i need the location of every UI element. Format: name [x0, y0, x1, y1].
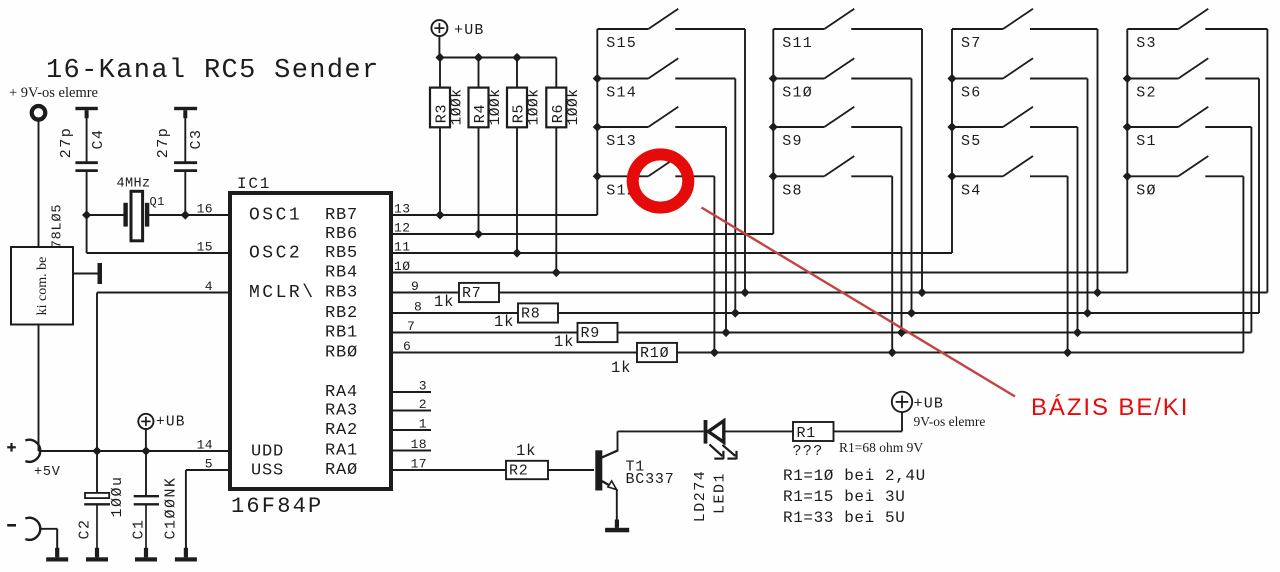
- wire RA stub: [391, 391, 431, 393]
- svg-text:S14: S14: [606, 85, 637, 102]
- wire column 4 rail: [1126, 29, 1128, 273]
- svg-text:R1=15 bei 3U: R1=15 bei 3U: [783, 488, 905, 506]
- wire R7 to matrix row: [499, 292, 1267, 294]
- svg-text:C4: C4: [90, 128, 107, 149]
- wire RB7 row (pin13): [391, 214, 597, 216]
- node S9 to row: [897, 328, 906, 337]
- resistor R5 100k: [516, 58, 518, 88]
- svg-text:S1Ø: S1Ø: [782, 85, 813, 102]
- wire RA stub: [391, 410, 431, 412]
- svg-text:S4: S4: [961, 182, 981, 199]
- svg-text:16-Kanal RC5 Sender: 16-Kanal RC5 Sender: [46, 56, 380, 86]
- svg-text:+5V: +5V: [34, 465, 61, 480]
- wire column 1 rail: [596, 29, 598, 215]
- node R3 to pin row: [435, 210, 444, 219]
- svg-text:RB6: RB6: [325, 225, 358, 244]
- node R6 to pin row: [552, 268, 561, 277]
- power symbol +UB (left): [138, 414, 153, 429]
- wire emitter to ground: [616, 489, 618, 528]
- svg-text:RB4: RB4: [325, 264, 358, 283]
- node S6 to row: [1083, 308, 1092, 317]
- svg-text:R3: R3: [434, 104, 451, 124]
- node S11 to row: [917, 288, 926, 297]
- switch S9: [773, 126, 824, 128]
- wire S11 drop: [921, 29, 923, 293]
- node S7 to row: [1093, 288, 1102, 297]
- stub from regulator with T-bar: [73, 273, 98, 275]
- wire LED to R1: [724, 430, 793, 432]
- svg-text:S1: S1: [1136, 133, 1156, 150]
- battery terminal ring: [32, 106, 46, 120]
- svg-text:S9: S9: [782, 133, 802, 150]
- svg-text:R8: R8: [521, 306, 541, 323]
- svg-text:5: 5: [205, 457, 213, 472]
- svg-text:C2: C2: [77, 518, 94, 539]
- svg-text:RAØ: RAØ: [325, 461, 358, 480]
- resistor R1Ø 1k: [637, 343, 677, 362]
- svg-text:S5: S5: [961, 133, 981, 150]
- wire S4 drop: [1067, 176, 1069, 352]
- svg-text:16: 16: [197, 202, 213, 217]
- wire pin row to R7: [391, 292, 459, 294]
- wire pin row to R1Ø: [391, 352, 637, 354]
- wire S9 drop: [901, 127, 903, 333]
- svg-text:S11: S11: [782, 35, 813, 52]
- node R5 to pin row: [512, 248, 521, 257]
- node S1Ø to row: [907, 308, 916, 317]
- svg-text:1k: 1k: [516, 442, 536, 460]
- switch S4: [952, 175, 1003, 177]
- svg-text:S8: S8: [782, 182, 802, 199]
- minus terminal arc: [25, 518, 40, 540]
- node S8 to row: [888, 348, 897, 357]
- ground (minus): [56, 529, 58, 558]
- capacitor C3 ground: [174, 107, 197, 110]
- switch S7: [952, 28, 1003, 30]
- svg-text:4: 4: [205, 279, 213, 294]
- switch S1Ø: [773, 78, 824, 80]
- node rail junction S14: [593, 74, 602, 83]
- svg-text:4MHz: 4MHz: [117, 177, 151, 192]
- svg-text:1k: 1k: [434, 293, 454, 311]
- svg-text:LED1: LED1: [712, 472, 729, 514]
- svg-text:15: 15: [197, 240, 213, 255]
- resistor R7 1k: [459, 283, 499, 302]
- capacitor C4 ground: [75, 107, 97, 110]
- node rail junction S9: [769, 122, 778, 131]
- svg-text:S6: S6: [961, 85, 981, 102]
- wire pin row to R9: [391, 332, 578, 334]
- node rail junction S6: [947, 74, 956, 83]
- node S4 to row: [1063, 348, 1072, 357]
- svg-text:S13: S13: [606, 133, 637, 150]
- svg-text:R1Ø: R1Ø: [640, 345, 669, 362]
- switch S3: [1127, 28, 1178, 30]
- node top rail junction 2: [474, 53, 483, 62]
- wire S6 drop: [1087, 79, 1089, 314]
- svg-text:ki com. be: ki com. be: [35, 257, 50, 316]
- svg-text:S3: S3: [1136, 35, 1156, 52]
- resistor R9 1k: [578, 323, 618, 342]
- wire to OSC2: [86, 215, 88, 253]
- svg-text:RA2: RA2: [325, 421, 358, 440]
- node S12 to row: [710, 348, 719, 357]
- capacitor C1: [145, 451, 147, 495]
- svg-text:1k: 1k: [611, 359, 631, 377]
- switch S12: [597, 175, 648, 177]
- node rail junction S5: [947, 122, 956, 131]
- wire R1 to +UB: [834, 430, 903, 432]
- switch S6: [952, 78, 1003, 80]
- +5V row wire to VDD pin 14: [39, 450, 231, 452]
- wire pin row to R8: [391, 312, 518, 314]
- svg-text:27p: 27p: [155, 127, 172, 159]
- svg-text:R1=1Ø bei 2,4U: R1=1Ø bei 2,4U: [783, 467, 926, 485]
- wire +UB stub: [438, 36, 440, 57]
- svg-text:R1=68 ohm 9V: R1=68 ohm 9V: [839, 440, 923, 455]
- wire minus to ground: [40, 528, 57, 530]
- svg-text:R5: R5: [511, 104, 528, 124]
- wire collector to LED: [618, 430, 704, 432]
- wire MCLR: [97, 292, 230, 294]
- svg-text:+UB: +UB: [914, 396, 945, 413]
- svg-text:9V-os elemre: 9V-os elemre: [914, 414, 986, 429]
- wire R9 to matrix row: [618, 332, 1252, 334]
- wire S7 drop: [1097, 29, 1099, 293]
- svg-text:RA4: RA4: [325, 383, 358, 402]
- svg-text:16F84P: 16F84P: [231, 494, 323, 519]
- svg-text:OSC2: OSC2: [249, 244, 302, 264]
- svg-text:R1=33 bei 5U: R1=33 bei 5U: [783, 509, 905, 527]
- svg-text:R4: R4: [472, 104, 489, 124]
- svg-text:S7: S7: [961, 35, 981, 52]
- power symbol +UB (top): [431, 20, 447, 36]
- svg-text:RB7: RB7: [325, 206, 358, 225]
- svg-text:C1: C1: [131, 518, 148, 539]
- svg-text:UDD: UDD: [251, 443, 284, 462]
- svg-text:1ØØk: 1ØØk: [566, 89, 582, 126]
- node +5V/C1 junction: [141, 446, 150, 455]
- wire RA stub: [391, 429, 431, 431]
- wire column 2 rail: [772, 29, 774, 234]
- wire R1Ø to matrix row: [677, 352, 1243, 354]
- wire S1Ø drop: [911, 79, 913, 314]
- svg-text:RA1: RA1: [325, 442, 358, 461]
- svg-text:14: 14: [197, 438, 213, 453]
- wire RB5 row (pin11): [391, 252, 952, 254]
- ground (VSS wire): [185, 520, 187, 557]
- svg-text:C1ØØNK: C1ØØNK: [163, 476, 180, 539]
- svg-text:1k: 1k: [494, 313, 514, 331]
- resistor R4 100k: [478, 58, 480, 88]
- svg-text:IC1: IC1: [237, 175, 271, 193]
- svg-text:S15: S15: [606, 35, 637, 52]
- switch S1: [1127, 126, 1178, 128]
- node rail junction SØ: [1123, 172, 1132, 181]
- svg-text:+UB: +UB: [156, 415, 186, 431]
- svg-text:RB3: RB3: [325, 284, 358, 303]
- wire RB6 row (pin12): [391, 233, 773, 235]
- svg-text:78LØ5: 78LØ5: [51, 204, 66, 249]
- node OSC1 left junction: [82, 210, 91, 219]
- LED arrows: [709, 444, 736, 459]
- power symbol +UB (right): [892, 392, 912, 412]
- svg-text:+ 9V-os elemre: + 9V-os elemre: [9, 85, 98, 101]
- red circle annotation around S12 switch: [625, 146, 696, 214]
- wire SØ drop: [1242, 176, 1244, 352]
- switch S14: [597, 78, 648, 80]
- wire S2 drop: [1258, 79, 1260, 314]
- svg-text:RB1: RB1: [325, 324, 358, 343]
- minus sign: [7, 524, 16, 527]
- svg-text:C3: C3: [188, 128, 205, 149]
- node rail junction S8: [769, 172, 778, 181]
- wire S1 drop: [1250, 127, 1252, 333]
- wire S12 drop: [713, 176, 715, 352]
- resistor R8 1k: [518, 303, 558, 322]
- node S14 to row: [731, 308, 740, 317]
- svg-text:Q1: Q1: [150, 195, 165, 209]
- svg-text:???: ???: [793, 443, 824, 460]
- resistor R1: [793, 422, 834, 441]
- node OSC1 right junction: [181, 210, 190, 219]
- wire VSS to ground: [186, 469, 230, 471]
- svg-text:R2: R2: [509, 463, 529, 480]
- svg-text:27p: 27p: [58, 127, 75, 159]
- wire crystal to OSC1: [185, 214, 230, 216]
- wire column 3 rail: [951, 29, 953, 253]
- node S15 to row: [740, 288, 749, 297]
- svg-text:RBØ: RBØ: [325, 344, 358, 363]
- node S5 to row: [1073, 328, 1082, 337]
- node R4 to pin row: [474, 229, 483, 238]
- wire S13 drop: [725, 127, 727, 333]
- svg-text:1k: 1k: [554, 333, 574, 351]
- switch S13: [597, 126, 648, 128]
- wire S15 drop: [744, 29, 746, 293]
- switch S5: [952, 126, 1003, 128]
- capacitor C2 (electrolytic): [96, 451, 98, 493]
- svg-text:+UB: +UB: [454, 22, 485, 39]
- resistor R6 100k: [555, 58, 557, 88]
- svg-text:1ØØu: 1ØØu: [109, 475, 126, 517]
- node rail junction S1Ø: [769, 74, 778, 83]
- capacitor C4: [86, 118, 88, 162]
- svg-text:USS: USS: [251, 462, 284, 481]
- svg-text:1ØØk: 1ØØk: [450, 89, 466, 126]
- plus terminal arc: [25, 440, 40, 462]
- node rail junction S13: [593, 122, 602, 131]
- switch S8: [773, 175, 824, 177]
- switch SØ: [1127, 175, 1178, 177]
- node rail junction S1: [1123, 122, 1132, 131]
- svg-text:LD274: LD274: [692, 470, 709, 523]
- svg-text:1ØØk: 1ØØk: [527, 89, 543, 126]
- svg-text:R9: R9: [581, 325, 601, 342]
- wire terminal to 78L05: [38, 120, 40, 247]
- node top rail junction 1: [435, 53, 444, 62]
- wire collector up: [617, 431, 619, 451]
- wire RA stub: [391, 450, 431, 452]
- svg-text:MCLR\: MCLR\: [249, 283, 316, 303]
- wire R2 to base: [548, 469, 594, 471]
- svg-text:R6: R6: [550, 104, 567, 124]
- wire S14 drop: [734, 79, 736, 314]
- svg-text:SØ: SØ: [1136, 182, 1156, 199]
- node rail junction S12: [593, 172, 602, 181]
- wire R8 to matrix row: [558, 312, 1259, 314]
- op IC1 16F84P box: [230, 193, 391, 489]
- crystal Q1: [87, 214, 125, 216]
- regulator 78L05 box: [11, 247, 73, 325]
- node top rail junction 3: [512, 53, 521, 62]
- node rail junction S2: [1123, 74, 1132, 83]
- wire S8 drop: [891, 176, 893, 352]
- svg-text:RA3: RA3: [325, 402, 358, 421]
- switch S2: [1127, 78, 1178, 80]
- svg-text:R1: R1: [797, 425, 817, 442]
- svg-text:BÁZIS BE/KI: BÁZIS BE/KI: [1031, 394, 1189, 421]
- capacitor C3: [184, 118, 186, 162]
- LED LED1 (LD274): [704, 420, 708, 444]
- node rail junction S4: [947, 172, 956, 181]
- node +5V/MCLR junction: [92, 446, 101, 455]
- resistor R3 100k: [439, 58, 441, 88]
- switch S11: [773, 28, 824, 30]
- wire S5 drop: [1077, 127, 1079, 333]
- red pointer line: [702, 208, 1016, 397]
- ground (emitter): [615, 520, 619, 528]
- wire S3 drop: [1266, 29, 1268, 293]
- svg-text:RB5: RB5: [325, 244, 358, 263]
- resistor R2 1k: [506, 461, 548, 479]
- transistor T1 BC337: [595, 450, 602, 490]
- wire RA0 pin17 to R2: [391, 469, 506, 471]
- wire RB4 row (pin10): [391, 272, 1127, 274]
- svg-text:1ØØk: 1ØØk: [488, 89, 504, 126]
- svg-text:RB2: RB2: [325, 304, 358, 323]
- svg-text:BC337: BC337: [626, 471, 675, 488]
- plus sign: [7, 446, 16, 448]
- svg-text:S2: S2: [1136, 85, 1156, 102]
- svg-text:OSC1: OSC1: [249, 206, 302, 226]
- wire top rail: [439, 57, 556, 59]
- node S13 to row: [721, 328, 730, 337]
- switch S15: [597, 28, 648, 30]
- wire 78L05 to +5V row: [38, 325, 40, 452]
- svg-text:R7: R7: [462, 285, 482, 302]
